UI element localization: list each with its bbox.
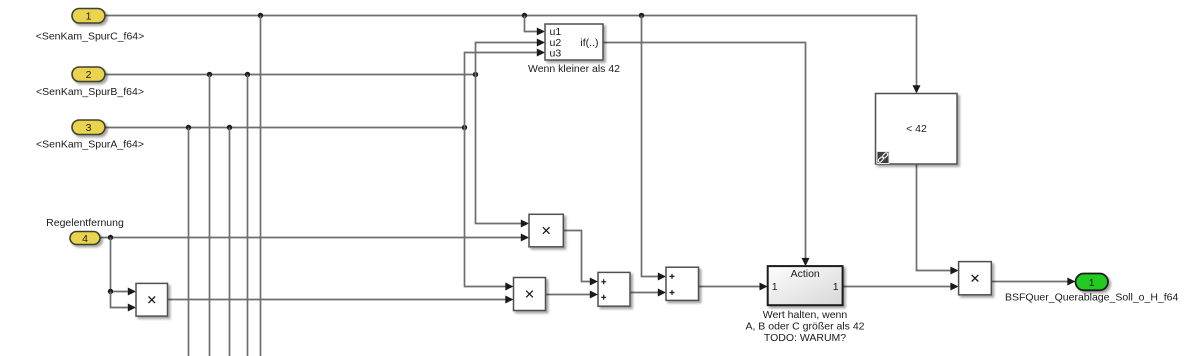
if block U1 (Wenn kleiner als 42): [545, 24, 603, 60]
label outport BSFQuer_Querablage_Soll_o_H_f64: [1005, 292, 1179, 304]
wire port3 down to product2 top input: [465, 128, 514, 291]
wire action output to product3 bottom input: [843, 283, 959, 291]
label inport3 SenKam_SpurA_f64: [36, 139, 144, 151]
svg-text:< 42: < 42: [906, 123, 927, 135]
label action block caption line3: [764, 332, 846, 344]
wire vertical branch v5 off bottom: [260, 16, 262, 356]
svg-text:TODO: WARUM?: TODO: WARUM?: [764, 332, 846, 344]
wire port2 down to product1 top input: [476, 75, 530, 228]
outport 1 (green): [1076, 274, 1109, 291]
wire product1 output to sum1 top input: [563, 231, 598, 286]
wire sum2 output to action block input: [699, 283, 768, 291]
library link badge on compare block: [877, 152, 889, 164]
wire port2 main horizontal: [105, 74, 476, 76]
node junction port1/u1: [522, 13, 527, 18]
svg-text:Action: Action: [791, 268, 820, 280]
product block P1 (x): [529, 214, 563, 247]
inport 2: [72, 67, 105, 82]
wire vertical branch v4 off bottom: [247, 75, 249, 356]
label if block Wenn kleiner als 42: [528, 63, 620, 75]
svg-text:1: 1: [833, 281, 839, 293]
wire port1 main horizontal to compare block: [105, 16, 921, 94]
node junction port2 v2: [207, 72, 212, 77]
wire vertical branch v2 off bottom: [209, 75, 211, 356]
label action block caption line2: [745, 321, 864, 333]
wire product3 output to outport: [991, 278, 1075, 286]
sum block S2 (+ +): [666, 267, 699, 300]
svg-text:Regelentfernung: Regelentfernung: [46, 217, 124, 229]
wire port4 branch down to product4 top input: [111, 238, 137, 296]
wire product2 output to sum1 bottom input: [546, 291, 599, 299]
wire port4 main horizontal to product1 bottom input: [100, 234, 529, 242]
node junction port4: [108, 235, 113, 240]
wire vertical branch v1 off bottom: [188, 128, 190, 356]
svg-text:<SenKam_SpurB_f64>: <SenKam_SpurB_f64>: [36, 86, 144, 98]
wire sum1 output to sum2 bottom input: [630, 289, 666, 297]
node junction port4 square: [108, 289, 113, 294]
wire port4 branch to product4 bottom input: [111, 292, 137, 312]
node junction port3 v3: [227, 125, 232, 130]
inport 4: [70, 232, 100, 246]
svg-text:4: 4: [82, 233, 88, 245]
svg-text:3: 3: [86, 122, 92, 134]
inport 1: [72, 9, 105, 24]
sum block S1 (+ +): [598, 272, 630, 306]
wire port1 branch to u1 input: [525, 16, 546, 36]
node junction port1/sum2: [639, 13, 644, 18]
product block P2 (x): [514, 278, 546, 311]
svg-text:<SenKam_SpurA_f64>: <SenKam_SpurA_f64>: [36, 139, 144, 151]
wire vertical branch v3 off bottom: [229, 128, 231, 356]
wire port1 branch down to sum2 top input: [642, 16, 667, 281]
label inport4 Regelentfernung: [46, 217, 124, 229]
wire product4 output to product2 bottom input: [168, 296, 514, 304]
svg-text:if(..): if(..): [580, 37, 598, 49]
node junction port3 split: [462, 125, 467, 130]
action subsystem block: [768, 266, 843, 305]
compare block (< 42): [876, 94, 958, 165]
product block P3 (x) right: [959, 262, 992, 295]
node junction port2 split: [473, 72, 478, 77]
svg-text:1: 1: [1089, 277, 1095, 289]
svg-text:A, B oder C größer als 42: A, B oder C größer als 42: [745, 321, 864, 333]
label action block caption line1: [763, 309, 848, 321]
wire port3 up to u3 input: [465, 49, 546, 128]
node junction port2 v4: [245, 72, 250, 77]
wire port2 up to u2 input: [476, 39, 546, 75]
product block P4 (x) bottom-left: [136, 283, 168, 316]
node junction port1/branch-down: [258, 13, 263, 18]
label inport1 SenKam_SpurC_f64: [36, 31, 145, 43]
svg-text:2: 2: [86, 69, 92, 81]
svg-text:Wert halten, wenn: Wert halten, wenn: [763, 309, 848, 321]
svg-text:1: 1: [86, 11, 92, 23]
svg-text:BSFQuer_Querablage_Soll_o_H_f6: BSFQuer_Querablage_Soll_o_H_f64: [1005, 292, 1179, 304]
wire port3 main horizontal: [105, 127, 465, 129]
svg-text:Wenn kleiner als 42: Wenn kleiner als 42: [528, 63, 620, 75]
wire if output to action block top port: [603, 43, 810, 267]
label inport2 SenKam_SpurB_f64: [36, 86, 144, 98]
inport 3: [72, 120, 105, 135]
svg-text:<SenKam_SpurC_f64>: <SenKam_SpurC_f64>: [36, 31, 145, 43]
wire compare output down to product3 top input: [917, 164, 959, 274]
node junction port3 v1: [186, 125, 191, 130]
svg-text:u3: u3: [550, 47, 562, 59]
svg-text:1: 1: [772, 281, 778, 293]
